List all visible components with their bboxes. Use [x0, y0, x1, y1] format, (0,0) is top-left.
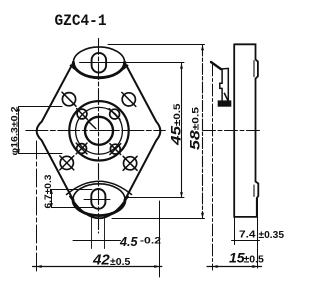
svg-text:45±0.5: 45±0.5: [168, 103, 184, 147]
45 label: [168, 103, 184, 147]
4.5 dimension line: [73, 240, 121, 242]
svg-text:58±0.5: 58±0.5: [186, 106, 202, 150]
15 dimension line: [207, 266, 262, 268]
clip leftmost dash-dot line: [212, 64, 214, 270]
42 right extension line: [159, 201, 161, 277]
42 label: [92, 252, 131, 269]
bottom ear upper plate arc: [70, 197, 128, 219]
plate outline left edge: [37, 62, 74, 199]
side view tab2 inner line: [253, 185, 255, 197]
7.4 label: [239, 230, 284, 241]
7.4 left extension line: [234, 217, 236, 245]
bottom ear ellipse: [73, 184, 125, 216]
svg-text:-0.2: -0.2: [140, 236, 161, 246]
mounting hole lower-right: [124, 157, 137, 170]
top ear slot: [92, 53, 107, 73]
central hole slash: [88, 121, 96, 129]
clip hook diagonal: [211, 62, 221, 69]
6.7 dimension line: [51, 190, 53, 208]
45 dimension line: [181, 63, 183, 197]
pin hole lower-left: [77, 144, 87, 154]
45-dim bottom extension line: [126, 197, 185, 199]
outer socket circle: [69, 101, 128, 160]
clip foot: [218, 100, 232, 106]
svg-text:42: 42: [92, 252, 110, 269]
top ear slot centerline / 45-dim extension: [80, 62, 185, 64]
4.5 slot width extension lines: [92, 216, 105, 249]
58 bottom extension line: [112, 218, 205, 220]
svg-text:GZC4-1: GZC4-1: [55, 12, 107, 30]
svg-text:±0.5: ±0.5: [244, 254, 265, 266]
central hole: [85, 117, 113, 145]
side view centerline: [203, 130, 261, 132]
mounting hole lower-left: [60, 156, 73, 169]
top ear ellipse: [73, 47, 124, 78]
svg-text:±0.5: ±0.5: [110, 256, 131, 268]
mounting hole upper-left: [62, 93, 75, 106]
title GZC4-1: [55, 12, 107, 30]
clip strip inner diagonal: [224, 93, 227, 100]
58 dimension line: [202, 45, 204, 218]
front view vertical centerline: [98, 39, 100, 234]
svg-text:φ16.3±0.2: φ16.3±0.2: [10, 107, 21, 156]
dia16.3 dimension line: [18, 107, 20, 154]
bottom ear slot: [91, 189, 105, 209]
bottom ear slot centerline: [84, 199, 110, 201]
svg-text:4.5: 4.5: [119, 235, 139, 249]
svg-text:15: 15: [229, 250, 245, 266]
58 label: [186, 106, 202, 150]
4.5 label: [119, 235, 161, 249]
pin hole upper-left: [77, 109, 87, 119]
42 left extension line: [36, 141, 38, 272]
svg-text:7.4: 7.4: [239, 230, 256, 241]
svg-text:6.7±0.3: 6.7±0.3: [43, 175, 54, 209]
6.7 label: [43, 175, 54, 209]
front view horizontal centerline: [26, 130, 166, 132]
58 top extension line: [108, 44, 205, 46]
pin hole lower-right: [110, 144, 120, 154]
dia16.3 label: [10, 107, 21, 156]
7.4 right extension line: [257, 198, 259, 268]
svg-text:±0.35: ±0.35: [259, 230, 285, 241]
15 label: [229, 250, 264, 266]
side view tab1 inner line: [253, 61, 255, 77]
top ear lower plate arc: [71, 66, 128, 79]
pin circle: [76, 107, 123, 154]
pin hole upper-right: [110, 109, 120, 119]
7.4 dimension line: [232, 240, 260, 242]
clip strip: [220, 68, 229, 100]
bottom ear outer arc: [67, 181, 132, 194]
plate outline right edge: [125, 62, 161, 199]
mounting hole upper-right: [122, 93, 135, 106]
side view body outline: [234, 44, 258, 217]
42 dimension line: [33, 266, 162, 268]
